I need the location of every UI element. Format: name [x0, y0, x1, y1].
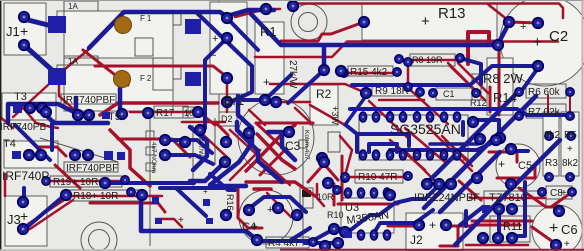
- wire navy R8 corner: [460, 58, 538, 93]
- svg-text:+: +: [263, 75, 270, 89]
- pad C6-1: [554, 206, 564, 216]
- pad node aa: [320, 241, 330, 251]
- svg-text:C2: C2: [549, 28, 568, 45]
- wire navy Br1 diagonals: [205, 18, 258, 128]
- pad node z: [333, 238, 343, 248]
- svg-text:T5: T5: [108, 111, 121, 123]
- wire red R6 R7 stubs: [548, 95, 570, 113]
- pad node v: [333, 186, 341, 194]
- pad Q3: [446, 179, 456, 189]
- svg-text:C1: C1: [443, 89, 455, 99]
- wire red pad to left: [281, 22, 364, 41]
- svg-text:10R: 10R: [317, 192, 334, 202]
- wire navy bottom y243: [291, 228, 340, 243]
- wire red R18: [5, 174, 162, 196]
- pad square T5: [102, 112, 110, 119]
- diode D1 outline: [328, 132, 340, 152]
- pad R4-1: [309, 238, 317, 246]
- pad Br1-3: [222, 73, 232, 83]
- pad J2-2: [441, 220, 451, 230]
- pad C8-2: [568, 188, 576, 196]
- svg-text:IRFZ24NPBF: IRFZ24NPBF: [414, 192, 480, 204]
- svg-text:+: +: [252, 222, 258, 233]
- svg-text:T3: T3: [14, 91, 27, 103]
- svg-text:8k2: 8k2: [562, 158, 579, 169]
- wire navy T5 pads link: [165, 140, 235, 190]
- pad Q2: [434, 179, 444, 189]
- pad R15-2: [393, 68, 401, 76]
- svg-text:C5: C5: [518, 160, 532, 172]
- pad square T6b: [117, 152, 125, 160]
- wire red top long: [293, 4, 563, 22]
- pad square S3: [185, 19, 201, 34]
- pad node ac: [495, 133, 505, 143]
- resistor R17 outline: [154, 106, 188, 118]
- mounting hole bottom: [81, 222, 117, 251]
- resistor R1 outline: [255, 22, 284, 94]
- svg-text:2k7/W: 2k7/W: [197, 138, 204, 157]
- wire red J2 left: [388, 226, 470, 246]
- pad R11-t3: [507, 204, 517, 214]
- pad node ae: [475, 134, 485, 144]
- pad R7-2: [566, 112, 574, 120]
- svg-text:10: 10: [184, 108, 194, 118]
- pad node af: [491, 135, 501, 145]
- svg-text:R17: R17: [156, 108, 175, 119]
- pad node x: [319, 157, 329, 167]
- resistor R8 2W outline: [487, 58, 513, 115]
- pad R19-2: [121, 176, 129, 184]
- resistor R4 outline: [266, 237, 309, 248]
- pad U3-b1: [357, 230, 364, 240]
- wire red F1 row: [83, 50, 227, 125]
- svg-text:8k2: 8k2: [544, 130, 561, 141]
- pad node w: [341, 174, 349, 182]
- wire navy mid chevron 2: [268, 132, 295, 160]
- svg-text:+: +: [267, 204, 273, 216]
- pad node y: [340, 227, 350, 237]
- wire navy SG long y150: [390, 139, 500, 150]
- svg-text:+: +: [212, 33, 218, 45]
- pad node s2: [292, 210, 302, 220]
- pad node ad: [468, 117, 478, 127]
- pad R18-1: [61, 190, 71, 200]
- wire red heatsink diag: [196, 128, 230, 160]
- wire navy diag A: [196, 12, 252, 103]
- resistor R10 outline: [355, 170, 403, 183]
- wire red R8 49R line: [344, 60, 460, 100]
- wire navy U3 links: [348, 185, 439, 233]
- pad C4-2: [252, 235, 262, 245]
- svg-text:4k7 NOhm: 4k7 NOhm: [150, 142, 157, 173]
- wire red R2 diag: [310, 105, 345, 125]
- svg-text:27k/W: 27k/W: [287, 60, 298, 89]
- wire red bottom long: [466, 244, 528, 247]
- connector J1 outline: [4, 3, 46, 55]
- resistor R8 outline: [410, 54, 455, 66]
- pad R15-1: [340, 69, 348, 77]
- board border top: [0, 0, 584, 2]
- wire navy C4 link: [251, 197, 345, 241]
- wire red C5 area: [459, 152, 535, 225]
- pad square T3: [13, 104, 22, 113]
- pad node g: [41, 107, 51, 117]
- pad R10-1: [341, 173, 349, 181]
- wire red into pad n: [216, 123, 228, 142]
- wire navy long y85: [352, 66, 536, 85]
- pad square S4: [185, 72, 201, 86]
- pad node s3: [329, 224, 339, 234]
- pad square m1: [152, 197, 159, 204]
- wire red bottom left: [55, 165, 165, 212]
- regulator TZ7810 outline: [484, 191, 546, 206]
- wire navy R11 links: [499, 182, 525, 238]
- wire red top mid diagonals: [407, 63, 488, 124]
- svg-text:R14: R14: [493, 90, 517, 105]
- pad J2-1: [414, 220, 424, 230]
- pad R3-2: [545, 173, 553, 181]
- wire navy SG stub1: [376, 109, 430, 117]
- pad node l: [160, 135, 170, 145]
- wire navy bottom y183: [105, 181, 194, 185]
- board border bottom: [280, 249, 584, 251]
- pad R7-1: [515, 112, 523, 120]
- wire navy SG U shapes: [463, 120, 528, 151]
- pad R1: [271, 97, 281, 107]
- svg-text:R12: R12: [470, 98, 487, 108]
- svg-text:+: +: [421, 13, 430, 30]
- svg-text:C6: C6: [561, 222, 578, 237]
- capacitor C4 outline: [239, 190, 293, 244]
- pad T4-3: [70, 150, 80, 160]
- svg-text:+: +: [20, 23, 28, 39]
- wire navy bottom mid y186: [215, 184, 246, 189]
- capacitor C5 outline: [496, 144, 540, 188]
- svg-text:+: +: [548, 144, 554, 155]
- pad R11-b2: [493, 233, 503, 243]
- pad Br1-4: [222, 97, 232, 107]
- wire red J3 diagonals: [28, 196, 73, 229]
- pad R19-1: [42, 177, 50, 185]
- svg-text:Kohm 4u7: Kohm 4u7: [303, 130, 310, 160]
- svg-text:T4: T4: [3, 138, 16, 150]
- pad C1-2: [472, 89, 480, 97]
- svg-text:R2: R2: [316, 87, 332, 101]
- wire red T3 diagonal: [0, 85, 58, 128]
- wire red R10 row: [345, 176, 408, 179]
- wire red C3 upper: [249, 108, 310, 125]
- wire red U3 left: [334, 184, 398, 205]
- pad node k: [127, 188, 135, 196]
- wire red C2 pads: [490, 22, 538, 115]
- svg-text:R3: R3: [545, 158, 558, 169]
- fuse holder F2 outline: [64, 65, 173, 111]
- svg-text:J3: J3: [7, 212, 21, 227]
- pad R2-2: [336, 66, 346, 76]
- wire navy top long: [89, 10, 509, 70]
- svg-text:C3: C3: [285, 139, 301, 153]
- wire navy R15 to pad: [345, 96, 366, 125]
- pad node u: [323, 178, 333, 188]
- svg-text:+3W: +3W: [330, 106, 340, 125]
- pad square S2: [48, 68, 66, 85]
- pad node p: [221, 210, 231, 220]
- wire red bottom mid long: [246, 182, 315, 196]
- board border right pink: [582, 0, 584, 251]
- pad R3-1: [545, 132, 553, 140]
- pad T4-2: [36, 150, 46, 160]
- pad node i: [195, 125, 205, 135]
- wire navy bottom right diag: [460, 207, 483, 226]
- resistor R5 outline: [561, 112, 579, 176]
- wire red bottom left U3: [267, 184, 324, 217]
- resistor R12 outline: [472, 74, 481, 100]
- svg-text:+: +: [429, 218, 436, 232]
- pad Br1-2: [222, 33, 232, 43]
- pad R11-t2: [494, 204, 504, 214]
- pad square R11: [482, 205, 490, 213]
- pad R6-1: [515, 88, 523, 96]
- wire red Br1 column: [226, 80, 229, 112]
- pad T3-1: [25, 103, 35, 113]
- pad node s: [273, 203, 283, 213]
- component column outline: [150, 118, 303, 246]
- op-amp U3 outline: [341, 198, 394, 233]
- svg-text:R4 4k7: R4 4k7: [268, 238, 300, 249]
- pad J1-2: [19, 40, 29, 50]
- wire navy bottom L: [141, 202, 257, 240]
- pad U3-b2: [370, 230, 377, 240]
- pad C2-1: [504, 17, 514, 27]
- pad C3-2: [244, 128, 254, 138]
- svg-text:R8 2W: R8 2W: [483, 71, 523, 86]
- svg-text:~: ~: [210, 50, 216, 62]
- svg-text:R10: R10: [327, 210, 344, 220]
- wire red mid diag1: [230, 130, 290, 185]
- svg-text:F1: F1: [140, 14, 153, 23]
- wire navy C3 pad: [243, 98, 265, 102]
- pad R5-1: [567, 132, 575, 140]
- pad mount: [359, 17, 369, 27]
- pad node top2: [288, 1, 298, 11]
- pad node j: [100, 178, 110, 188]
- svg-text:R19+ 10R: R19+ 10R: [53, 177, 98, 188]
- wire red R1 pad: [276, 101, 310, 104]
- pad node mid: [361, 88, 371, 98]
- transformer T3 outline: [2, 93, 56, 120]
- pad square m4: [206, 218, 213, 224]
- pad node t: [317, 153, 327, 163]
- wire navy SG left U shapes: [347, 126, 409, 152]
- wire navy SG y144: [430, 142, 478, 146]
- svg-text:R15 4k2: R15 4k2: [350, 67, 388, 78]
- fuse pad F1: [115, 17, 132, 34]
- pad square T4: [12, 151, 21, 159]
- wire red node top Br1: [235, 9, 280, 17]
- pad R9-1: [429, 89, 437, 97]
- svg-text:R16: R16: [225, 194, 235, 211]
- pad J3-1: [18, 197, 28, 207]
- svg-text:TZ7810: TZ7810: [489, 192, 527, 204]
- svg-text:+: +: [520, 21, 526, 33]
- pad node f: [143, 108, 153, 118]
- svg-text:J1: J1: [6, 24, 20, 39]
- pad node m: [160, 150, 170, 160]
- wire navy mid diag: [270, 70, 324, 103]
- svg-text:R11: R11: [503, 221, 522, 233]
- diode D3 outline: [300, 188, 313, 208]
- pad R8w: [533, 61, 543, 71]
- pad R18-2: [137, 190, 147, 200]
- svg-text:+: +: [178, 215, 184, 226]
- svg-text:R6 60k: R6 60k: [528, 87, 561, 98]
- wire red mid long: [255, 42, 558, 58]
- svg-text:1A: 1A: [68, 2, 78, 11]
- pad R9-2: [416, 88, 424, 96]
- resistor R18 outline: [70, 190, 140, 201]
- pad J3-2: [18, 224, 28, 234]
- pad square m2: [155, 218, 162, 224]
- svg-text:IRF740PBF: IRF740PBF: [63, 95, 115, 106]
- wire red diag F area: [59, 50, 88, 113]
- wire red bottom mid: [156, 219, 182, 227]
- pad R2-1: [319, 65, 329, 75]
- pad R8-1: [395, 55, 403, 63]
- wire red SG to R10: [340, 136, 352, 172]
- svg-text:F2: F2: [140, 74, 153, 83]
- wire red F2 row: [100, 103, 218, 115]
- connector J3 outline: [5, 196, 47, 246]
- pad U3-t4: [383, 188, 390, 198]
- pad R10-2: [404, 172, 412, 180]
- wire red y84: [270, 84, 366, 93]
- heatsink outline diagonal: [40, 138, 118, 162]
- resistor R7 outline: [526, 104, 566, 118]
- wire navy J3: [24, 188, 66, 228]
- pad U3-t1: [344, 188, 351, 198]
- svg-text:+: +: [203, 187, 208, 196]
- svg-text:+: +: [561, 188, 567, 199]
- pad R5-2: [566, 173, 574, 181]
- pad U3-t2: [357, 188, 364, 198]
- pad C6-2: [551, 240, 561, 250]
- board border bottom left: [0, 249, 280, 251]
- mounting hole top: [291, 4, 327, 40]
- pad square m3: [203, 199, 210, 206]
- resistor R9 outline: [372, 85, 418, 96]
- wire red diag R8 box: [450, 66, 485, 100]
- capacitor C1 outline: [436, 88, 472, 100]
- fuse pad F2: [114, 71, 131, 88]
- svg-text:+: +: [564, 239, 570, 250]
- svg-text:R5: R5: [564, 130, 577, 141]
- wire navy diag T4: [15, 124, 52, 160]
- pad node q: [244, 205, 254, 215]
- pad node ah: [472, 173, 482, 183]
- resistor R11 outline: [490, 216, 530, 242]
- svg-text:IRF740PB: IRF740PB: [0, 122, 46, 133]
- wire red corner box: [468, 32, 489, 64]
- pad J1-1: [19, 12, 29, 22]
- label box IRF740PBF T6: [64, 162, 118, 172]
- svg-text:R10 47R: R10 47R: [358, 172, 397, 183]
- svg-text:+: +: [567, 144, 573, 155]
- wire navy J1 pads: [24, 19, 52, 70]
- wire navy mid chevron 1: [237, 122, 282, 182]
- capacitor C6 outline: [532, 205, 582, 251]
- pad node o: [220, 157, 230, 167]
- pad C2-3: [493, 40, 503, 50]
- wire navy mid left zig: [210, 96, 252, 185]
- bridge rectifier Br1 outline: [210, 2, 247, 94]
- wire red TZ7810: [470, 197, 545, 200]
- capacitor C3 outline: [238, 99, 314, 175]
- svg-text:IRF740PBF: IRF740PBF: [66, 163, 118, 174]
- resistor R2 outline: [310, 85, 338, 125]
- svg-text:R7 02k: R7 02k: [528, 107, 561, 118]
- diode symbols column: [146, 131, 154, 139]
- capacitor C8 outline: [546, 186, 572, 199]
- svg-text:+: +: [498, 157, 505, 171]
- pad square T6: [104, 151, 113, 160]
- pad C2-2: [533, 18, 543, 28]
- pad node ab: [385, 190, 395, 200]
- pad node r: [404, 58, 412, 66]
- transformer T4 outline: [4, 141, 58, 168]
- resistor R3 outline: [543, 112, 559, 176]
- SG3525 pin row top: [359, 112, 460, 122]
- pad Q1: [422, 179, 432, 189]
- resistor R13 outline: [362, 4, 497, 40]
- pad square S1: [48, 16, 66, 33]
- wire navy long y109: [350, 109, 570, 115]
- wire navy bottom strip: [160, 188, 230, 216]
- SG3525 pin row bottom: [359, 150, 460, 160]
- wire red mid diag2: [230, 150, 260, 180]
- resistor R19 outline: [50, 176, 122, 187]
- pad square U3: [344, 231, 352, 238]
- pad node ag: [506, 144, 516, 154]
- pad U3-t3: [370, 188, 377, 198]
- pad T4-1: [24, 150, 34, 160]
- pad T5-3: [117, 109, 127, 119]
- svg-text:R1: R1: [260, 24, 277, 39]
- wire red SG diag1: [390, 128, 470, 170]
- svg-text:+: +: [549, 220, 558, 237]
- pad R11-b3: [507, 233, 517, 243]
- wire red SG area diagonals: [369, 101, 472, 183]
- pad C3-1: [260, 95, 270, 105]
- svg-text:J2: J2: [410, 233, 423, 247]
- pad R8-2: [456, 54, 464, 62]
- pad node top: [261, 4, 271, 14]
- pad T5-1: [73, 110, 83, 120]
- wire red T4 area: [38, 139, 190, 157]
- pad node ai: [506, 179, 516, 189]
- pad T3-2: [37, 103, 47, 113]
- svg-text:IRF740P: IRF740P: [2, 169, 49, 183]
- wire red R17: [130, 112, 225, 122]
- svg-text:D2: D2: [221, 114, 233, 124]
- svg-text:Br1: Br1: [224, 93, 244, 108]
- svg-text:R13: R13: [438, 5, 466, 22]
- svg-text:1A: 1A: [68, 57, 78, 66]
- board border left: [0, 0, 2, 251]
- IC SG3525 body outline: [359, 115, 468, 160]
- connector J2 outline: [406, 213, 463, 251]
- pad R6-2: [566, 88, 574, 96]
- pad U3-b3: [383, 230, 390, 240]
